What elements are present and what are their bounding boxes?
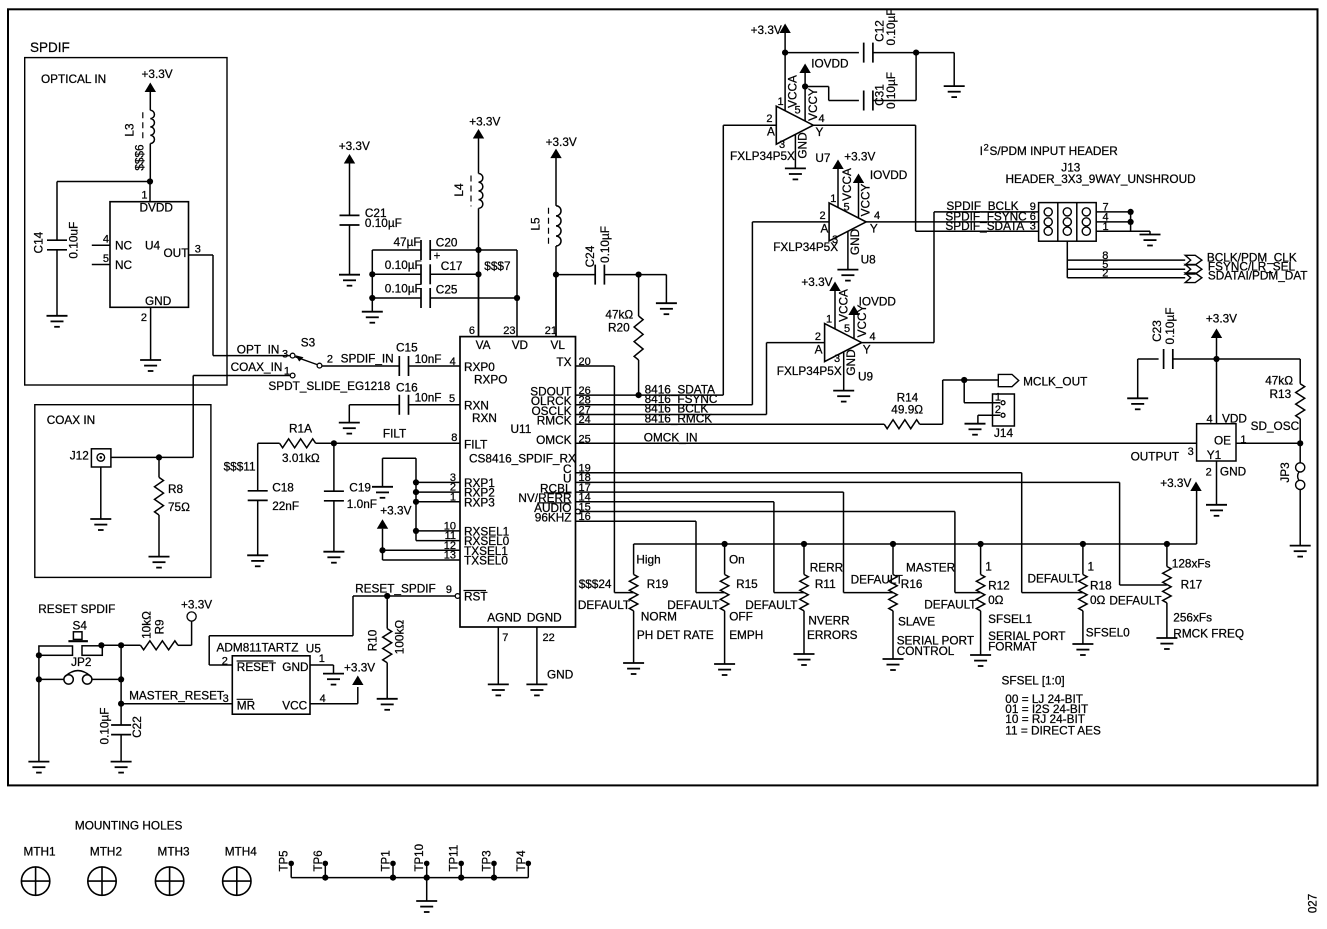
svg-text:VCCY: VCCY (855, 304, 869, 337)
svg-text:3: 3 (1188, 446, 1194, 458)
svg-text:5: 5 (795, 105, 801, 117)
svg-text:2: 2 (815, 331, 821, 343)
svg-text:0.10µF: 0.10µF (884, 9, 898, 46)
svg-text:R18: R18 (1090, 579, 1112, 593)
svg-text:COAX_IN: COAX_IN (231, 360, 283, 374)
svg-text:1: 1 (1088, 560, 1095, 574)
svg-text:0.10µF: 0.10µF (97, 708, 111, 745)
svg-text:R10: R10 (366, 629, 380, 651)
svg-text:R19: R19 (647, 577, 669, 591)
svg-text:HEADER_3X3_9WAY_UNSHROUD: HEADER_3X3_9WAY_UNSHROUD (1006, 172, 1196, 186)
svg-text:22: 22 (543, 632, 555, 644)
svg-text:IOVDD: IOVDD (811, 57, 848, 71)
svg-text:0.10µF: 0.10µF (1163, 308, 1177, 345)
svg-text:R17: R17 (1181, 578, 1203, 592)
svg-text:1: 1 (284, 366, 290, 378)
svg-text:+3.3V: +3.3V (801, 275, 832, 289)
svg-text:49.9Ω: 49.9Ω (891, 403, 923, 417)
svg-text:MASTER_RESET: MASTER_RESET (129, 689, 224, 703)
svg-text:U4: U4 (145, 239, 161, 253)
svg-text:U9: U9 (858, 370, 873, 384)
svg-text:+3.3V: +3.3V (469, 115, 500, 129)
svg-text:5: 5 (449, 393, 455, 405)
svg-text:1: 1 (778, 96, 784, 108)
svg-text:SPDIF_SDATA: SPDIF_SDATA (945, 219, 1024, 233)
svg-text:C22: C22 (130, 716, 144, 738)
svg-text:ADM811TARTZ: ADM811TARTZ (217, 641, 299, 655)
svg-text:TP4: TP4 (516, 850, 528, 872)
svg-text:S3: S3 (301, 336, 316, 350)
svg-text:11 = DIRECT AES: 11 = DIRECT AES (1005, 724, 1101, 738)
svg-text:R16: R16 (901, 577, 923, 591)
svg-text:JP3: JP3 (1278, 462, 1292, 483)
svg-text:SDATAI/PDM_DAT: SDATAI/PDM_DAT (1208, 268, 1308, 282)
svg-text:RMCK: RMCK (537, 414, 572, 428)
svg-text:SD_OSC: SD_OSC (1251, 419, 1300, 433)
svg-text:NC: NC (115, 258, 133, 272)
svg-text:SPDIF: SPDIF (30, 40, 70, 55)
svg-text:+3.3V: +3.3V (339, 139, 370, 153)
svg-text:SFSEL [1:0]: SFSEL [1:0] (1002, 674, 1065, 688)
svg-text:+3.3V: +3.3V (344, 661, 375, 675)
svg-text:SFSEL0: SFSEL0 (1086, 626, 1130, 640)
svg-text:SPDT_SLIDE_EG1218: SPDT_SLIDE_EG1218 (268, 379, 390, 393)
svg-text:SLAVE: SLAVE (898, 615, 935, 629)
svg-text:PH DET RATE: PH DET RATE (637, 628, 714, 642)
svg-text:OPT_IN: OPT_IN (237, 343, 280, 357)
svg-text:DEFAULT: DEFAULT (851, 573, 903, 587)
svg-text:0Ω: 0Ω (1090, 593, 1106, 607)
svg-text:OE: OE (1214, 434, 1231, 448)
svg-text:DEFAULT: DEFAULT (578, 598, 630, 612)
svg-text:0.10µF: 0.10µF (385, 258, 422, 272)
svg-text:FXLP34P5X: FXLP34P5X (777, 364, 842, 378)
svg-text:GND: GND (547, 668, 573, 682)
svg-text:2: 2 (984, 143, 989, 154)
svg-text:J14: J14 (994, 426, 1013, 440)
svg-text:47kΩ: 47kΩ (605, 308, 633, 322)
svg-text:L3: L3 (123, 123, 137, 137)
svg-text:22nF: 22nF (272, 499, 299, 513)
svg-text:0.10µF: 0.10µF (884, 72, 898, 109)
svg-text:$$$24: $$$24 (579, 577, 612, 591)
svg-text:COAX IN: COAX IN (47, 413, 96, 427)
svg-text:A: A (767, 125, 775, 139)
svg-text:DGND: DGND (527, 611, 562, 625)
svg-text:GND: GND (1220, 465, 1246, 479)
svg-text:RMCK FREQ: RMCK FREQ (1173, 627, 1244, 641)
svg-text:FXLP34P5X: FXLP34P5X (730, 149, 795, 163)
svg-text:1: 1 (830, 193, 836, 205)
svg-text:2: 2 (1102, 268, 1108, 280)
svg-text:RXP3: RXP3 (464, 495, 495, 509)
svg-text:C24: C24 (583, 245, 597, 267)
svg-text:R12: R12 (988, 579, 1010, 593)
svg-text:10nF: 10nF (415, 391, 442, 405)
svg-text:JP2: JP2 (71, 655, 91, 669)
svg-text:$$$7: $$$7 (484, 259, 510, 273)
svg-text:SFSEL1: SFSEL1 (988, 612, 1032, 626)
svg-text:8416_RMCK: 8416_RMCK (645, 411, 713, 425)
svg-text:Y: Y (870, 222, 878, 236)
svg-text:10nF: 10nF (415, 352, 442, 366)
svg-text:A: A (821, 222, 829, 236)
svg-text:MASTER: MASTER (906, 561, 955, 575)
svg-text:100kΩ: 100kΩ (393, 620, 407, 655)
svg-text:VCCA: VCCA (785, 75, 799, 108)
svg-text:Y: Y (816, 125, 824, 139)
svg-text:EMPH: EMPH (729, 628, 763, 642)
svg-text:0.10µF: 0.10µF (598, 226, 612, 263)
svg-text:3: 3 (282, 349, 288, 361)
svg-text:+3.3V: +3.3V (1206, 312, 1237, 326)
svg-text:On: On (729, 553, 745, 567)
svg-text:7: 7 (502, 632, 508, 644)
svg-text:OMCK_IN: OMCK_IN (644, 430, 698, 444)
svg-text:VCCY: VCCY (858, 183, 872, 216)
svg-text:1: 1 (826, 314, 832, 326)
svg-text:FXLP34P5X: FXLP34P5X (773, 240, 838, 254)
svg-text:47kΩ: 47kΩ (1265, 374, 1293, 388)
svg-text:VCC: VCC (282, 699, 307, 713)
svg-text:RESET_SPDIF: RESET_SPDIF (355, 581, 436, 595)
svg-text:75Ω: 75Ω (168, 500, 190, 514)
svg-text:GND: GND (145, 294, 171, 308)
svg-text:3: 3 (1030, 221, 1036, 233)
svg-text:TP3: TP3 (482, 850, 494, 871)
svg-text:GND: GND (795, 132, 809, 158)
svg-text:R9: R9 (152, 619, 166, 634)
svg-text:$$$6: $$$6 (133, 144, 147, 171)
svg-text:RESET: RESET (237, 660, 276, 674)
svg-text:MR: MR (237, 699, 255, 713)
svg-text:5: 5 (844, 202, 850, 214)
svg-text:VL: VL (551, 338, 566, 352)
svg-text:GND: GND (282, 660, 308, 674)
svg-text:2: 2 (819, 210, 825, 222)
svg-text:4: 4 (874, 210, 880, 222)
svg-text:DEFAULT: DEFAULT (924, 598, 976, 612)
svg-text:+3.3V: +3.3V (844, 150, 875, 164)
svg-text:5: 5 (844, 323, 850, 335)
svg-text:RXN: RXN (472, 411, 497, 425)
svg-text:GND: GND (848, 229, 862, 255)
svg-text:FORMAT: FORMAT (988, 640, 1037, 654)
svg-text:J12: J12 (70, 449, 89, 463)
svg-text:R11: R11 (815, 577, 836, 591)
svg-text:IOVDD: IOVDD (870, 168, 907, 182)
svg-text:3.01kΩ: 3.01kΩ (282, 451, 320, 465)
svg-text:0.10µF: 0.10µF (365, 216, 402, 230)
svg-text:1: 1 (1103, 221, 1109, 233)
svg-text:1.0nF: 1.0nF (347, 497, 377, 511)
svg-text:U11: U11 (511, 422, 532, 436)
svg-text:ERRORS: ERRORS (807, 628, 858, 642)
svg-text:0.10µF: 0.10µF (385, 282, 422, 296)
svg-text:256xFs: 256xFs (1173, 611, 1212, 625)
svg-text:3: 3 (223, 693, 229, 705)
svg-text:C25: C25 (436, 283, 458, 297)
svg-text:OUT: OUT (164, 246, 189, 260)
svg-text:$$$11: $$$11 (224, 460, 256, 474)
svg-text:DEFAULT: DEFAULT (667, 598, 719, 612)
svg-text:DEFAULT: DEFAULT (745, 598, 797, 612)
svg-text:+3.3V: +3.3V (181, 598, 212, 612)
svg-text:027: 027 (1308, 894, 1320, 913)
svg-text:Y: Y (863, 343, 871, 357)
svg-text:C14: C14 (31, 231, 45, 253)
svg-text:2: 2 (327, 354, 333, 366)
svg-text:TP6: TP6 (313, 850, 325, 871)
svg-text:VDD: VDD (1222, 411, 1247, 425)
svg-text:5: 5 (103, 253, 109, 265)
svg-text:+3.3V: +3.3V (546, 135, 577, 149)
svg-text:2: 2 (141, 312, 147, 324)
svg-text:OPTICAL IN: OPTICAL IN (41, 72, 106, 86)
svg-text:21: 21 (545, 325, 557, 337)
svg-text:RST: RST (464, 590, 488, 604)
svg-text:DVDD: DVDD (140, 201, 173, 215)
svg-text:VA: VA (476, 338, 491, 352)
svg-text:VD: VD (512, 338, 528, 352)
svg-text:+3.3V: +3.3V (1160, 476, 1191, 490)
svg-text:96KHZ: 96KHZ (535, 511, 572, 525)
svg-text:I: I (980, 144, 983, 158)
svg-text:OMCK: OMCK (536, 433, 572, 447)
svg-text:MOUNTING HOLES: MOUNTING HOLES (75, 819, 183, 833)
svg-text:MCLK_OUT: MCLK_OUT (1023, 375, 1087, 389)
svg-text:L4: L4 (452, 183, 466, 197)
svg-text:3: 3 (195, 244, 201, 256)
svg-text:C20: C20 (436, 236, 458, 250)
svg-text:A: A (815, 343, 823, 357)
svg-text:CS8416_SPDIF_RX: CS8416_SPDIF_RX (469, 452, 576, 466)
svg-text:1: 1 (450, 491, 456, 503)
svg-text:U7: U7 (815, 151, 830, 165)
svg-text:TXSEL0: TXSEL0 (464, 554, 508, 568)
svg-text:RESET SPDIF: RESET SPDIF (38, 602, 115, 616)
svg-text:VCCA: VCCA (840, 168, 854, 201)
svg-text:4: 4 (819, 113, 825, 125)
svg-text:1: 1 (141, 190, 147, 202)
svg-text:TP10: TP10 (414, 844, 426, 872)
svg-text:L5: L5 (529, 217, 543, 231)
svg-text:128xFs: 128xFs (1172, 557, 1211, 571)
svg-text:S/PDM INPUT HEADER: S/PDM INPUT HEADER (990, 144, 1118, 158)
svg-text:C19: C19 (349, 481, 371, 495)
svg-text:+3.3V: +3.3V (380, 504, 411, 518)
svg-text:1: 1 (985, 560, 992, 574)
svg-text:TP1: TP1 (381, 850, 393, 871)
svg-text:4: 4 (103, 234, 109, 246)
svg-text:1: 1 (995, 392, 1001, 404)
svg-text:+3.3V: +3.3V (751, 23, 782, 37)
svg-text:GND: GND (844, 349, 858, 375)
svg-text:C23: C23 (1150, 320, 1164, 342)
svg-text:MTH2: MTH2 (90, 845, 122, 859)
svg-text:2: 2 (995, 404, 1001, 416)
svg-text:R13: R13 (1270, 387, 1292, 401)
svg-text:U8: U8 (861, 253, 877, 267)
svg-text:DEFAULT: DEFAULT (1109, 594, 1161, 608)
svg-text:0.10uF: 0.10uF (67, 222, 81, 259)
svg-text:3: 3 (834, 353, 840, 365)
svg-text:DEFAULT: DEFAULT (1028, 572, 1080, 586)
svg-text:1: 1 (319, 653, 325, 665)
svg-text:R20: R20 (608, 321, 630, 335)
svg-text:0Ω: 0Ω (988, 593, 1004, 607)
svg-text:9: 9 (446, 584, 452, 596)
svg-text:High: High (636, 553, 660, 567)
svg-text:S4: S4 (73, 619, 88, 633)
svg-text:AGND: AGND (487, 611, 521, 625)
svg-text:+3.3V: +3.3V (142, 67, 173, 81)
svg-text:Y1: Y1 (1207, 448, 1221, 462)
svg-text:VCCA: VCCA (836, 289, 850, 322)
svg-text:CONTROL: CONTROL (897, 644, 955, 658)
svg-text:6: 6 (469, 325, 475, 337)
svg-text:R15: R15 (736, 577, 758, 591)
svg-text:R8: R8 (168, 482, 184, 496)
svg-text:47µF: 47µF (394, 235, 421, 249)
svg-text:SPDIF_IN: SPDIF_IN (341, 352, 394, 366)
svg-text:MTH4: MTH4 (225, 845, 258, 859)
svg-text:MTH1: MTH1 (24, 845, 56, 859)
svg-text:FILT: FILT (464, 437, 487, 451)
svg-text:MTH3: MTH3 (158, 845, 191, 859)
svg-text:4: 4 (1206, 413, 1212, 425)
svg-text:TP5: TP5 (279, 850, 291, 871)
svg-text:RERR: RERR (810, 561, 843, 575)
svg-text:OUTPUT: OUTPUT (1131, 450, 1180, 464)
svg-text:4: 4 (870, 331, 876, 343)
svg-text:TX: TX (556, 355, 571, 369)
svg-text:FILT: FILT (383, 427, 406, 441)
svg-text:8: 8 (451, 432, 457, 444)
svg-text:TP11: TP11 (449, 845, 461, 872)
svg-text:23: 23 (503, 325, 515, 337)
svg-text:+: + (434, 250, 441, 262)
svg-text:R1A: R1A (289, 422, 312, 436)
svg-text:10kΩ: 10kΩ (139, 611, 153, 639)
svg-text:4: 4 (450, 356, 456, 368)
svg-text:2: 2 (766, 113, 772, 125)
svg-text:NC: NC (115, 239, 133, 253)
svg-text:C17: C17 (441, 259, 463, 273)
svg-text:C18: C18 (272, 481, 294, 495)
svg-text:NVERR: NVERR (808, 614, 849, 628)
svg-text:2: 2 (1206, 467, 1212, 479)
svg-text:RXPO: RXPO (474, 373, 507, 387)
